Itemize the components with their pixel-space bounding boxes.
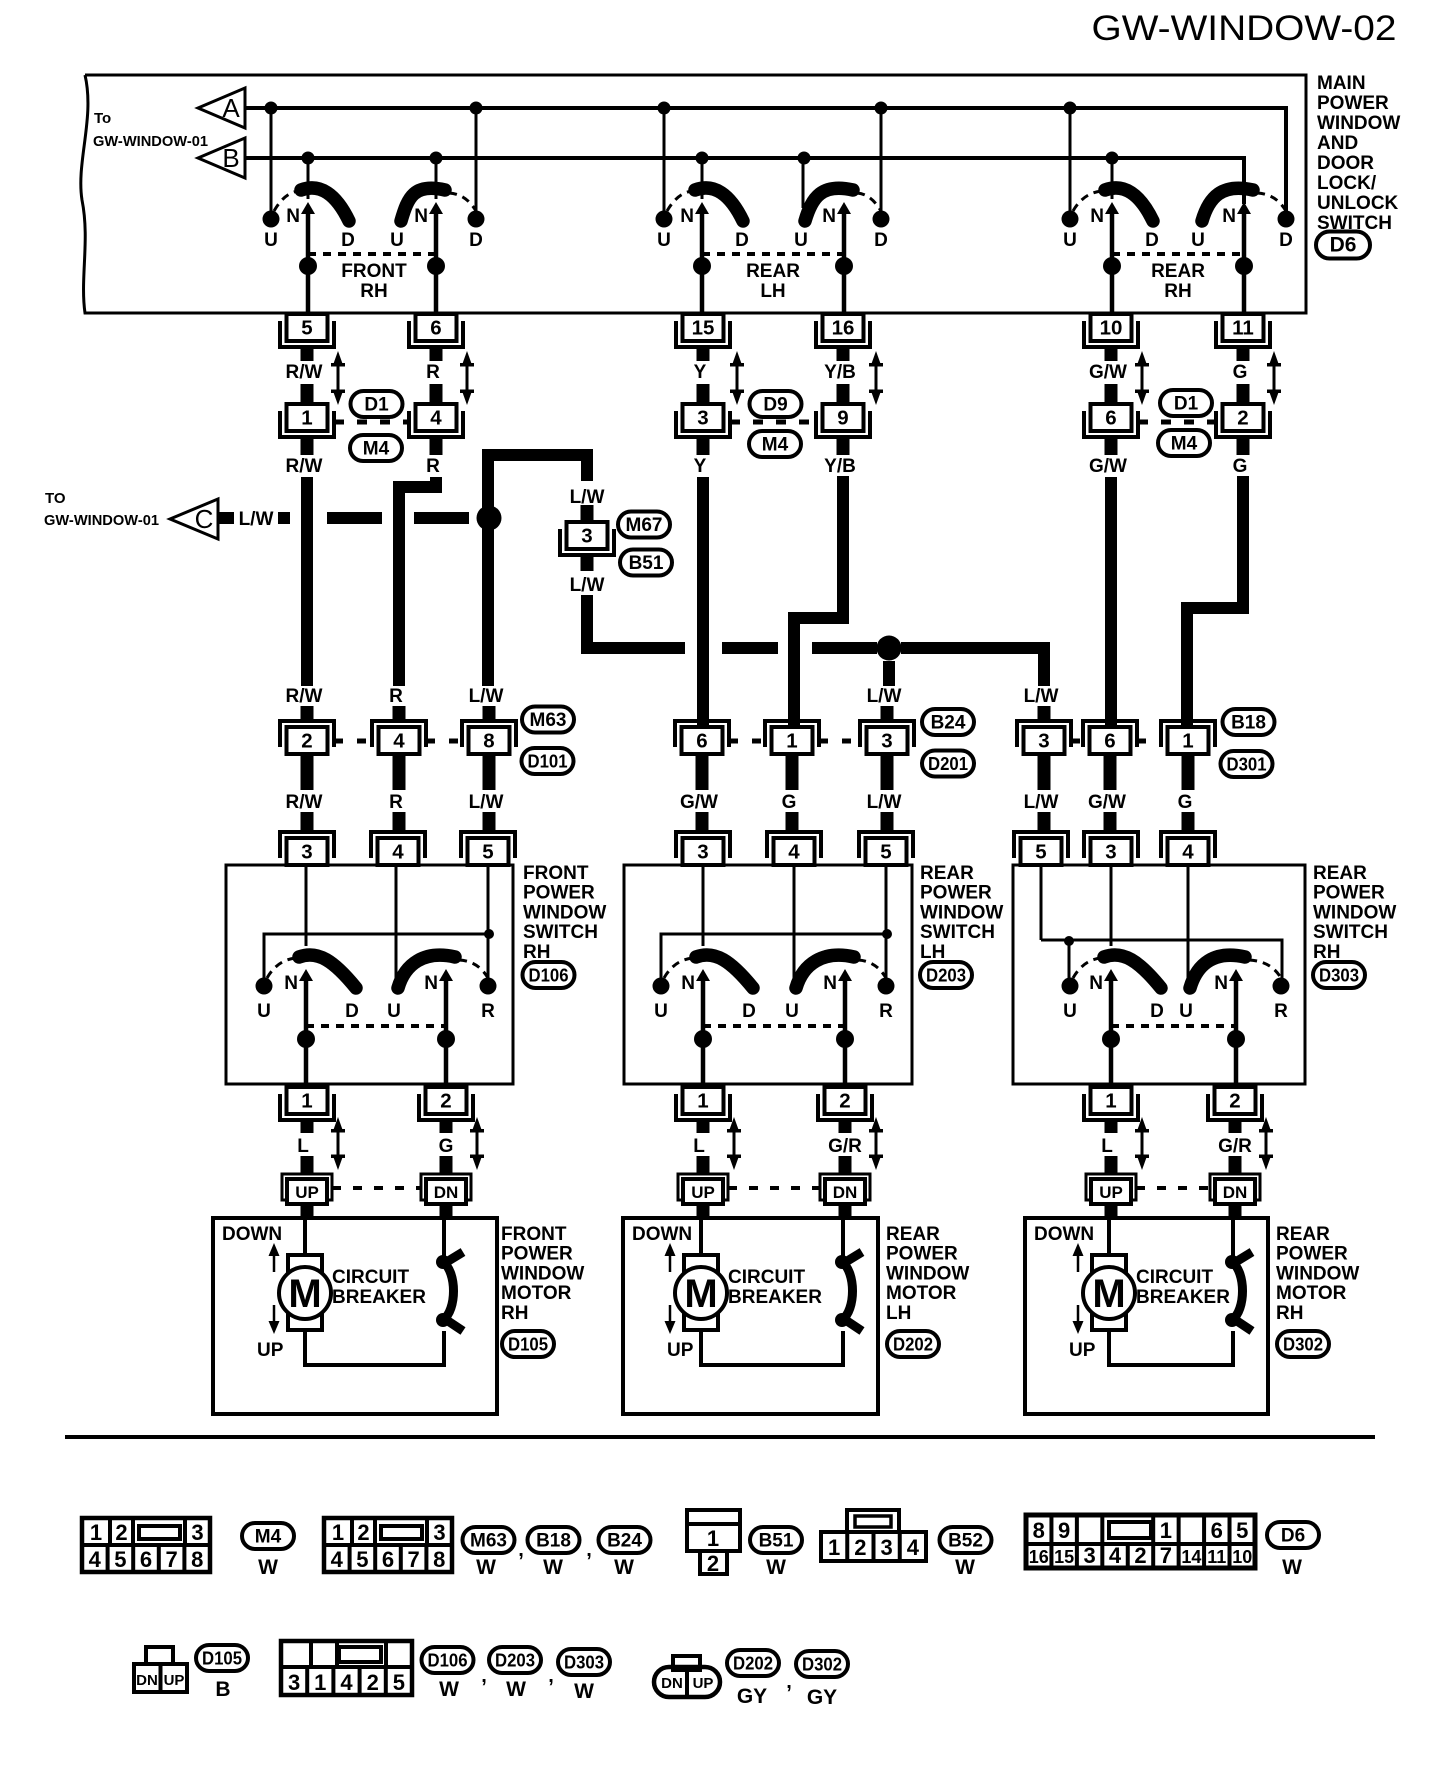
svg-text:R/W: R/W — [286, 686, 323, 707]
connector label D202 — [887, 1331, 939, 1357]
svg-text:Y/B: Y/B — [824, 362, 856, 383]
svg-text:LH: LH — [920, 942, 945, 963]
svg-text:2: 2 — [440, 1090, 451, 1113]
svg-text:W: W — [1282, 1556, 1302, 1579]
svg-text:U: U — [1063, 1001, 1077, 1022]
wire L/W right segment to group3 — [901, 648, 1044, 686]
svg-text:DN: DN — [434, 1183, 459, 1202]
M63/D101 dashed connector link — [426, 739, 462, 744]
main REAR LH switch rocker-left pole wire — [700, 212, 705, 314]
off-page connector triangle C — [170, 499, 218, 539]
group3 double arrow G/R — [1259, 1117, 1273, 1170]
connector label D1 (group3) — [1160, 390, 1212, 416]
svg-text:7: 7 — [165, 1547, 177, 1572]
svg-text:POWER: POWER — [523, 883, 595, 904]
group2 switch box switch rocker-right pole arrowhead — [838, 969, 852, 981]
group3 label block ['REAR', 'POWER', 'WINDOW', 'SWITCH', 'RH'] — [1313, 863, 1396, 963]
group1 stub below motor pin 2 — [440, 1119, 453, 1133]
group3 label CIRCUIT BREAKER — [1136, 1267, 1230, 1308]
wire L/W dashed segment 3 — [327, 512, 382, 524]
group3 stub above UP connector — [1105, 1156, 1118, 1174]
svg-text:FRONT: FRONT — [523, 863, 589, 884]
group1 motor wire UP side — [303, 1218, 307, 1256]
svg-text:G: G — [1178, 792, 1193, 813]
svg-text:W: W — [574, 1680, 594, 1703]
svg-text:L/W: L/W — [867, 686, 902, 707]
svg-text:N: N — [424, 973, 438, 994]
connector label D201 — [922, 751, 974, 777]
svg-text:4: 4 — [393, 730, 405, 753]
svg-text:3: 3 — [697, 407, 708, 430]
svg-text:3: 3 — [1105, 841, 1116, 864]
svg-text:D101: D101 — [528, 752, 568, 772]
svg-text:1: 1 — [707, 1526, 719, 1551]
svg-text:CIRCUIT: CIRCUIT — [728, 1267, 805, 1288]
svg-text:N: N — [681, 973, 695, 994]
svg-text:RH: RH — [523, 942, 550, 963]
label TO GW-WINDOW-01 (left middle) — [44, 490, 159, 529]
group1 col R wire stub below pin 6 — [430, 345, 443, 361]
group3 col G/W wire stub below pin 10 — [1105, 345, 1118, 361]
svg-text:3: 3 — [433, 1520, 445, 1545]
main REAR RH switch rocker-right contact arm (crescent) — [1202, 188, 1253, 221]
main REAR RH switch rocker-left dashed arc — [1073, 191, 1103, 211]
group1 col R connect arrow (double) — [460, 351, 474, 405]
group2 switch box switch rocker-right D contact dot — [878, 978, 895, 995]
svg-text:W: W — [476, 1556, 496, 1579]
svg-text:To: To — [94, 110, 111, 127]
B18/D301 stub above connector pin 3 — [1038, 706, 1051, 722]
svg-text:N: N — [284, 973, 298, 994]
group1 switch box switch rocker-right pole wire — [444, 979, 449, 1086]
legend connector B52 (4-pin) — [821, 1510, 926, 1561]
wire L/W dashed segment 6 — [812, 642, 877, 654]
group3 switch box switch rocker-right contact arm (crescent) — [1190, 955, 1245, 988]
svg-text:UP: UP — [667, 1340, 694, 1361]
connector label B24 — [922, 709, 974, 735]
svg-text:RH: RH — [1276, 1303, 1303, 1324]
connector pin 2 (group1 motor) — [419, 1087, 473, 1120]
legend label D6 — [1267, 1522, 1319, 1548]
svg-text:DOWN: DOWN — [222, 1224, 282, 1245]
main REAR LH switch rocker-left pole feed wire — [701, 158, 704, 199]
wire R/W group1 vertical — [301, 477, 313, 686]
legend label B24 — [599, 1527, 651, 1553]
group1 switch box switch rocker-left pole wire — [304, 979, 309, 1086]
B18/D301 stub to switch pin below G/W label — [1104, 812, 1117, 833]
svg-text:5: 5 — [482, 841, 493, 864]
svg-text:M: M — [288, 1272, 321, 1316]
svg-text:B51: B51 — [629, 553, 664, 574]
group2 motor wire UP side — [699, 1218, 703, 1256]
legend label D202 — [727, 1650, 779, 1676]
group1 double arrow G — [470, 1117, 484, 1170]
svg-text:A: A — [222, 93, 240, 123]
label To GW-WINDOW-01 (top left) — [93, 110, 208, 150]
svg-text:M67: M67 — [626, 515, 663, 536]
svg-text:5: 5 — [880, 841, 891, 864]
svg-text:D106: D106 — [428, 1651, 468, 1671]
svg-text:5: 5 — [356, 1547, 368, 1572]
group2 double arrow L — [727, 1117, 741, 1170]
legend label B51 — [750, 1527, 802, 1553]
connector pin 3 (D106 switch top) — [280, 832, 334, 865]
M63/D101 stub below connector pin 2 — [301, 754, 314, 790]
group1 label block ['FRONT', 'POWER', 'WINDOW', 'MOTOR', 'RH'] — [501, 1224, 584, 1324]
group2 switch box switch rocker-right dashed arc — [858, 960, 886, 978]
connector label D303 — [1313, 962, 1365, 988]
connector label D302 — [1277, 1331, 1329, 1357]
B24/D201 stub above connector pin 3 — [881, 706, 894, 722]
svg-text:2: 2 — [115, 1520, 127, 1545]
group1 switch box internal horizontal wire — [264, 934, 489, 986]
group1 circuit breaker element — [436, 1252, 463, 1331]
main REAR RH switch rocker-left U contact dot — [1062, 211, 1079, 228]
main REAR LH switch rocker-left pole junction dot — [693, 257, 711, 275]
group3 switch box switch rocker-right pole wire — [1234, 979, 1239, 1086]
svg-text:U: U — [1191, 230, 1205, 251]
svg-text:L: L — [297, 1136, 309, 1157]
svg-text:D203: D203 — [495, 1651, 535, 1671]
svg-text:M4: M4 — [255, 1527, 282, 1548]
svg-text:UP: UP — [295, 1183, 319, 1202]
label FRONT RH — [341, 261, 407, 302]
group3 arrow down (up direction) — [1073, 1305, 1084, 1334]
svg-text:3: 3 — [288, 1670, 300, 1695]
svg-text:U: U — [390, 230, 404, 251]
connector pin 3 (D303 switch top) — [1084, 832, 1138, 865]
svg-text:L/W: L/W — [469, 686, 504, 707]
connector label M4 (group2) — [749, 431, 801, 457]
connector pin 9 (D9/M4) — [816, 404, 870, 437]
connector pin 1 (group2 motor) — [676, 1087, 730, 1120]
legend label D106 — [422, 1647, 474, 1673]
group3 stub below motor pin 1 — [1105, 1119, 1118, 1133]
B24/D201 stub below connector pin 1 — [786, 754, 799, 790]
wire Y/B to G group2 vertical with jog — [794, 476, 843, 727]
group3 stub below motor pin 2 — [1229, 1119, 1242, 1133]
main REAR RH switch rocker-left contact arm (crescent) — [1105, 188, 1153, 221]
svg-text:6: 6 — [140, 1547, 152, 1572]
group2 col Y/B connect arrow (double) — [869, 351, 883, 405]
svg-text:R: R — [426, 456, 440, 477]
svg-text:1: 1 — [1182, 730, 1193, 753]
connector pin 11 (D6) — [1216, 314, 1270, 347]
svg-text:R/W: R/W — [286, 362, 323, 383]
legend label B52 — [940, 1527, 992, 1553]
label REAR LH — [746, 261, 800, 302]
svg-text:5: 5 — [393, 1670, 405, 1695]
svg-text:G: G — [782, 792, 797, 813]
svg-text:2: 2 — [357, 1520, 369, 1545]
svg-text:UP: UP — [693, 1675, 714, 1692]
main REAR RH switch rocker-right dashed arc — [1257, 193, 1286, 211]
group2 switch box internal junction dot — [882, 929, 892, 939]
main FRONT RH switch rocker-left contact arm (crescent) — [301, 188, 349, 221]
connector pin 1 (B24/D201) — [765, 721, 819, 754]
svg-text:1: 1 — [786, 730, 797, 753]
group3 switch box switch rocker-left pole junction dot — [1102, 1030, 1120, 1048]
svg-text:REAR: REAR — [746, 261, 800, 282]
M63/D101 stub to switch pin below R label — [393, 812, 406, 833]
wire G group3 vertical with jog — [1187, 476, 1243, 727]
group2 stub DN to motor box — [839, 1204, 852, 1218]
main REAR RH switch rocker-left pole feed wire — [1111, 158, 1114, 199]
svg-text:REAR: REAR — [1313, 863, 1367, 884]
main REAR LH switch mechanical link (dashed) — [702, 252, 844, 256]
svg-text:M: M — [1092, 1272, 1125, 1316]
svg-text:WINDOW: WINDOW — [920, 902, 1003, 923]
svg-text:D: D — [469, 230, 483, 251]
connector pin 3 (D203 switch top) — [676, 832, 730, 865]
svg-text:8: 8 — [1033, 1518, 1045, 1543]
group2 switch box switch rocker-left pole arrowhead — [696, 969, 710, 981]
svg-text:N: N — [286, 206, 300, 227]
svg-text:M63: M63 — [530, 710, 567, 731]
svg-text:MOTOR: MOTOR — [1276, 1283, 1347, 1304]
main REAR LH switch rocker-left U contact dot — [656, 211, 673, 228]
junction dot on bus A at x=476 — [470, 102, 483, 115]
svg-text:G/W: G/W — [1089, 362, 1127, 383]
group3 circuit breaker element — [1225, 1252, 1252, 1331]
wire bus B feed to REAR-LH U2 contact — [802, 158, 805, 208]
svg-text:2: 2 — [839, 1090, 850, 1113]
svg-text:N: N — [822, 206, 836, 227]
svg-text:W: W — [506, 1678, 526, 1701]
svg-text:LH: LH — [886, 1303, 911, 1324]
svg-text:RH: RH — [501, 1303, 528, 1324]
M63/D101 stub above connector pin 8 — [483, 706, 496, 722]
connector pin 2 (M63/D101) — [280, 721, 334, 754]
svg-text:2: 2 — [1134, 1543, 1146, 1568]
svg-text:R: R — [389, 686, 403, 707]
svg-text:7: 7 — [1160, 1543, 1172, 1568]
svg-text:B18: B18 — [1231, 713, 1266, 734]
group3 col G/W wire stub above inline connector — [1105, 384, 1118, 404]
svg-text:REAR: REAR — [1151, 261, 1205, 282]
svg-text:L: L — [693, 1136, 705, 1157]
main REAR RH switch rocker-right pole wire — [1242, 212, 1247, 314]
connector pin 1 (D1/M4) — [280, 404, 334, 437]
svg-text:WINDOW: WINDOW — [1317, 113, 1400, 134]
connector pin 4 (D303 switch top) — [1161, 832, 1215, 865]
svg-text:D1: D1 — [364, 395, 389, 416]
group2 motor bottom wire — [701, 1330, 843, 1365]
svg-text:M4: M4 — [1171, 434, 1198, 455]
label MAIN POWER WINDOW AND DOOR LOCK/UNLOCK SWITCH — [1317, 73, 1400, 234]
main FRONT RH switch rocker-left pole junction dot — [299, 257, 317, 275]
group3 switch box switch rocker-left dashed arc — [1073, 958, 1102, 978]
svg-text:GW-WINDOW-02: GW-WINDOW-02 — [1092, 9, 1397, 48]
svg-text:,: , — [786, 1671, 792, 1693]
group2 switch box switch rocker-right pole junction dot — [836, 1030, 854, 1048]
group2 col Y wire stub above inline connector — [697, 384, 710, 404]
legend label M4 — [242, 1523, 294, 1549]
group2 motor M circle — [675, 1267, 727, 1319]
group1 switch box internal junction dot — [484, 929, 494, 939]
group2 stub UP to motor box — [697, 1204, 710, 1218]
group1 connector terminal UP — [282, 1174, 332, 1204]
wire L/W dashed segment 4 — [414, 512, 469, 524]
main FRONT RH switch rocker-left dashed arc — [274, 191, 299, 211]
svg-text:U: U — [1179, 1001, 1193, 1022]
main REAR LH switch rocker-right pole arrowhead — [837, 202, 851, 214]
group3 switch box switch mechanical link (dashed) — [1111, 1024, 1236, 1028]
dashed connector link D9-M4 group2 — [730, 420, 816, 425]
group2 label block ['REAR', 'POWER', 'WINDOW', 'SWITCH', 'LH'] — [920, 863, 1003, 963]
svg-text:L/W: L/W — [1024, 792, 1059, 813]
svg-text:1: 1 — [1160, 1518, 1172, 1543]
svg-text:D9: D9 — [763, 395, 787, 416]
M63/D101 stub below connector pin 8 — [483, 754, 496, 790]
svg-text:POWER: POWER — [920, 883, 992, 904]
svg-text:G: G — [1233, 362, 1248, 383]
legend label D105 — [196, 1645, 248, 1671]
group3 connector terminal DN — [1210, 1174, 1260, 1204]
group2 arrow down (up direction) — [665, 1305, 676, 1334]
connector pin 15 (D6) — [676, 314, 730, 347]
svg-text:G/W: G/W — [1088, 792, 1126, 813]
group1 switch box switch rocker-left dashed arc — [267, 958, 297, 978]
group2 switch box internal wire pin 5 down to junction — [885, 865, 888, 934]
main FRONT RH switch rocker-right pole wire — [434, 212, 439, 314]
group2 arrow up (down direction) — [665, 1243, 676, 1272]
group3 G stub below connector 2 — [1237, 437, 1250, 455]
wire L/W up from junction to M67 connector — [488, 455, 587, 524]
svg-text:W: W — [766, 1556, 786, 1579]
svg-text:1: 1 — [90, 1520, 102, 1545]
group3 arrow up (down direction) — [1073, 1243, 1084, 1272]
svg-text:4: 4 — [331, 1547, 344, 1572]
group2 Y stub below connector 3 — [697, 437, 710, 455]
separator line — [65, 1435, 1375, 1439]
connector pin 6 (D6) — [409, 314, 463, 347]
connector pin 3 (D9/M4) — [676, 404, 730, 437]
wire L/W dashed segment 2 — [278, 512, 290, 524]
group3 switch box internal horizontal wire — [1041, 940, 1282, 978]
connector pin 3 (M67/B51) — [560, 522, 614, 555]
group2 circuit breaker wire upper — [841, 1218, 845, 1258]
B18/D301 stub below connector pin 6 — [1104, 754, 1117, 790]
group2 switch box switch rocker-left pole wire — [701, 979, 706, 1086]
legend label D302 — [796, 1651, 848, 1677]
svg-text:UP: UP — [164, 1672, 185, 1689]
group1 switch box outline — [226, 865, 513, 1084]
svg-text:D105: D105 — [202, 1649, 242, 1669]
group3 motor wire UP side — [1107, 1218, 1111, 1256]
connector label D203 — [920, 962, 972, 988]
group1 switch box internal wire junction down to R contact — [487, 934, 490, 978]
connector pin 5 (D6) — [280, 314, 334, 347]
group1 circuit breaker wire upper — [442, 1218, 446, 1258]
svg-text:4: 4 — [1182, 841, 1194, 864]
svg-text:4: 4 — [89, 1547, 102, 1572]
group2 circuit breaker element — [835, 1252, 862, 1331]
group3 col G connect arrow (double) — [1267, 351, 1281, 405]
svg-text:R: R — [481, 1001, 495, 1022]
group3 label block ['REAR', 'POWER', 'WINDOW', 'MOTOR', 'RH'] — [1276, 1224, 1359, 1324]
B18/D301 stub below connector pin 3 — [1038, 754, 1051, 790]
svg-text:1: 1 — [301, 1090, 312, 1113]
wire L/W down from junction — [482, 518, 494, 686]
junction dot on bus B at x=436 — [430, 152, 443, 165]
svg-text:D202: D202 — [733, 1654, 773, 1674]
connector pin 6 (B24/D201) — [675, 721, 729, 754]
group1 switch box switch rocker-left pole arrowhead — [299, 969, 313, 981]
group2 col Y wire stub below pin 15 — [697, 345, 710, 361]
group3 stub UP to motor box — [1105, 1204, 1118, 1218]
main REAR RH switch rocker-right pole junction dot — [1235, 257, 1253, 275]
legend connector D202 (motor 2-pin round) — [654, 1656, 720, 1697]
svg-text:U: U — [657, 230, 671, 251]
junction dot on bus A at x=881 — [875, 102, 888, 115]
svg-text:W: W — [543, 1556, 563, 1579]
junction dot on bus B at x=1112 — [1106, 152, 1119, 165]
group1 R stub below connector 4 — [430, 437, 443, 455]
connector pin 2 (D1/M4) — [1216, 404, 1270, 437]
svg-text:D302: D302 — [1283, 1335, 1323, 1355]
svg-text:5: 5 — [114, 1547, 126, 1572]
connector label D9 — [750, 391, 802, 417]
junction dot on bus B at x=702 — [696, 152, 709, 165]
group2 switch box internal wire junction down to R contact — [885, 934, 888, 978]
junction dot on bus A at x=1070 — [1064, 102, 1077, 115]
connector label M63 — [522, 707, 574, 733]
group3 switch box switch rocker-left contact arm (crescent) — [1104, 955, 1161, 988]
svg-text:R/W: R/W — [286, 456, 323, 477]
group3 switch box outline — [1013, 865, 1305, 1084]
svg-text:SWITCH: SWITCH — [523, 922, 598, 943]
main REAR RH switch mechanical link (dashed) — [1112, 252, 1244, 256]
svg-text:N: N — [1214, 973, 1228, 994]
group3 switch box switch rocker-right pole arrowhead — [1229, 969, 1243, 981]
svg-text:B18: B18 — [536, 1531, 571, 1552]
svg-text:D6: D6 — [1330, 234, 1357, 257]
svg-text:R: R — [1274, 1001, 1288, 1022]
svg-text:MOTOR: MOTOR — [501, 1283, 572, 1304]
svg-text:5: 5 — [1035, 841, 1046, 864]
group3 stub above DN connector — [1229, 1156, 1242, 1174]
M63/D101 stub above connector pin 2 — [301, 706, 314, 722]
group2 label block ['REAR', 'POWER', 'WINDOW', 'MOTOR', 'LH'] — [886, 1224, 969, 1324]
group1 switch box switch rocker-right dashed arc — [459, 960, 488, 978]
svg-text:SWITCH: SWITCH — [920, 922, 995, 943]
svg-text:REAR: REAR — [886, 1224, 940, 1245]
connector label D1 (group1) — [351, 391, 403, 417]
svg-text:15: 15 — [1054, 1547, 1074, 1567]
connector pin 5 (D203 switch top) — [859, 832, 913, 865]
svg-text:3: 3 — [191, 1520, 203, 1545]
svg-text:D303: D303 — [564, 1653, 604, 1673]
connector pin 4 (M63/D101) — [372, 721, 426, 754]
group1 stub above DN connector — [440, 1156, 453, 1174]
svg-text:DOWN: DOWN — [1034, 1224, 1094, 1245]
connector label M4 (group3) — [1158, 430, 1210, 456]
svg-text:GY: GY — [737, 1685, 767, 1708]
svg-text:POWER: POWER — [1317, 93, 1389, 114]
group1 col R/W wire stub below pin 5 — [301, 345, 314, 361]
wire R group1 vertical with jog — [399, 477, 436, 686]
svg-text:M: M — [684, 1272, 717, 1316]
group1 switch box switch rocker-right pole arrowhead — [439, 969, 453, 981]
svg-text:N: N — [414, 206, 428, 227]
svg-text:1: 1 — [1105, 1090, 1116, 1113]
svg-text:UP: UP — [1099, 1183, 1123, 1202]
svg-text:4: 4 — [392, 841, 404, 864]
svg-text:8: 8 — [191, 1547, 203, 1572]
svg-text:D201: D201 — [928, 754, 968, 774]
svg-text:U: U — [264, 230, 278, 251]
